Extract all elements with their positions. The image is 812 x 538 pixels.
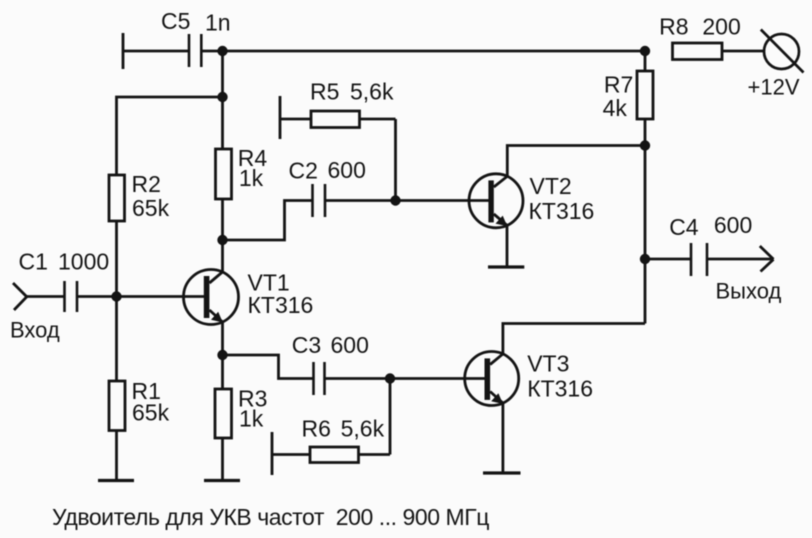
ground under VT2	[488, 265, 524, 268]
svg-text:65k: 65k	[132, 195, 170, 221]
wire C4 to output	[707, 258, 773, 261]
resistor R4 1k	[216, 145, 268, 199]
svg-text:C5: C5	[161, 8, 190, 34]
wire R3 top from emitter node	[221, 355, 224, 389]
wire VT1 collector up	[221, 240, 224, 272]
capacitor C5	[123, 8, 231, 69]
resistor R7 4k	[603, 71, 653, 121]
svg-text:R5: R5	[310, 78, 339, 104]
capacitor C3 600	[292, 332, 369, 395]
svg-text:1000: 1000	[58, 249, 109, 275]
wire R1 bottom to ground	[115, 431, 118, 481]
wire collector node to C2	[223, 201, 313, 241]
svg-text:600: 600	[331, 332, 369, 358]
svg-text:65k: 65k	[132, 400, 170, 426]
resistor R8 200	[659, 13, 764, 59]
capacitor C4 600	[669, 212, 752, 276]
wire R2 bottom to input node	[115, 221, 118, 296]
svg-text:Выход: Выход	[716, 279, 782, 304]
wire bus down to C4 node	[644, 146, 647, 260]
wire VT1 emitter down	[221, 322, 224, 356]
node collector bus junction	[640, 140, 650, 150]
transistor VT3 KT316	[465, 351, 593, 406]
wire R5 down to VT2 base node	[394, 119, 397, 201]
wire base node to VT1 base	[117, 295, 205, 298]
svg-text:1n: 1n	[205, 10, 231, 36]
resistor R6 5,6k	[272, 416, 390, 476]
wire junction to R2 top	[117, 97, 223, 175]
wire base node to VT2	[396, 199, 489, 202]
output terminal arrow	[760, 246, 774, 272]
svg-text:КТ316: КТ316	[248, 292, 314, 318]
svg-text:1k: 1k	[239, 165, 264, 191]
svg-text:Вход: Вход	[10, 318, 60, 343]
wire C4 node to C4	[645, 258, 691, 261]
wire C1 to base node	[77, 295, 117, 298]
node R2 branch junction	[217, 92, 227, 102]
svg-text:5,6k: 5,6k	[350, 78, 394, 104]
svg-text:C1: C1	[19, 249, 48, 275]
svg-text:4k: 4k	[603, 95, 628, 121]
wire C3 to VT3 base node	[325, 377, 391, 380]
svg-text:R8: R8	[659, 13, 688, 39]
capacitor C1 1000	[19, 249, 110, 313]
svg-text:КТ316: КТ316	[527, 375, 593, 401]
+12V supply terminal	[748, 30, 804, 100]
ground under R3	[204, 479, 240, 482]
svg-text:КТ316: КТ316	[529, 198, 595, 224]
node C4 junction	[640, 254, 650, 264]
transistor VT1 KT316	[184, 270, 314, 325]
resistor R1 65k	[109, 378, 170, 431]
svg-text:C2: C2	[289, 158, 318, 184]
wire second junction down to R4	[221, 97, 224, 149]
svg-text:R7: R7	[604, 72, 633, 98]
capacitor C2 600	[289, 157, 366, 217]
wire junction down to second junction	[221, 51, 224, 97]
node base junction	[111, 291, 121, 301]
resistor R3 1k	[215, 386, 267, 439]
wire base node down to R1	[115, 297, 118, 382]
wire R4 bottom to collector node	[221, 199, 224, 240]
svg-text:R6: R6	[302, 416, 331, 442]
wire input to C1	[27, 295, 65, 298]
svg-text:VT3: VT3	[527, 351, 569, 377]
transistor VT2 KT316	[469, 173, 594, 228]
resistor R2 65k	[109, 171, 170, 221]
node VT3 base junction	[385, 373, 395, 383]
svg-text:600: 600	[328, 157, 366, 183]
node VT2 base junction	[390, 195, 400, 205]
wire R3 bottom to ground	[221, 438, 224, 481]
wire C2 to VT2 base node	[325, 199, 396, 202]
svg-text:+12V: +12V	[748, 75, 800, 100]
svg-text:C4: C4	[669, 214, 699, 240]
svg-text:VT2: VT2	[530, 173, 572, 199]
wire R6 right up to VT3 base node	[389, 379, 392, 455]
wire emitter node to C3	[223, 355, 314, 379]
svg-text:Удвоитель для УКВ частот 200: Удвоитель для УКВ частот 200 ... 900 МГц	[52, 504, 489, 530]
wire top bus C5 to R8	[202, 50, 646, 53]
svg-text:C3: C3	[292, 332, 321, 358]
svg-text:200: 200	[702, 14, 740, 40]
svg-text:600: 600	[714, 212, 752, 238]
wire VT2 emitter down	[506, 225, 509, 267]
wire bus to R7	[644, 51, 647, 71]
ground under R1	[98, 479, 134, 482]
node VT1 collector junction	[217, 235, 227, 245]
node top-left junction	[217, 46, 227, 56]
wire base node to VT3	[390, 377, 485, 380]
svg-text:5,6k: 5,6k	[341, 416, 385, 442]
svg-text:R2: R2	[132, 171, 161, 197]
wire R7 bottom to collector bus	[644, 119, 647, 146]
wire bus down and left to VT3 collector	[644, 259, 647, 324]
wire VT3 collector up and right to bus	[503, 324, 645, 354]
ground under VT3	[483, 471, 521, 474]
svg-text:1k: 1k	[239, 406, 264, 432]
wire VT3 emitter down	[501, 403, 504, 473]
wire VT2 collector up and right to bus	[507, 146, 645, 177]
node VT1 emitter junction	[217, 350, 227, 360]
input terminal arrow	[13, 283, 27, 310]
resistor R5 5,6k	[280, 78, 396, 139]
node top bus R7 junction	[640, 46, 650, 56]
